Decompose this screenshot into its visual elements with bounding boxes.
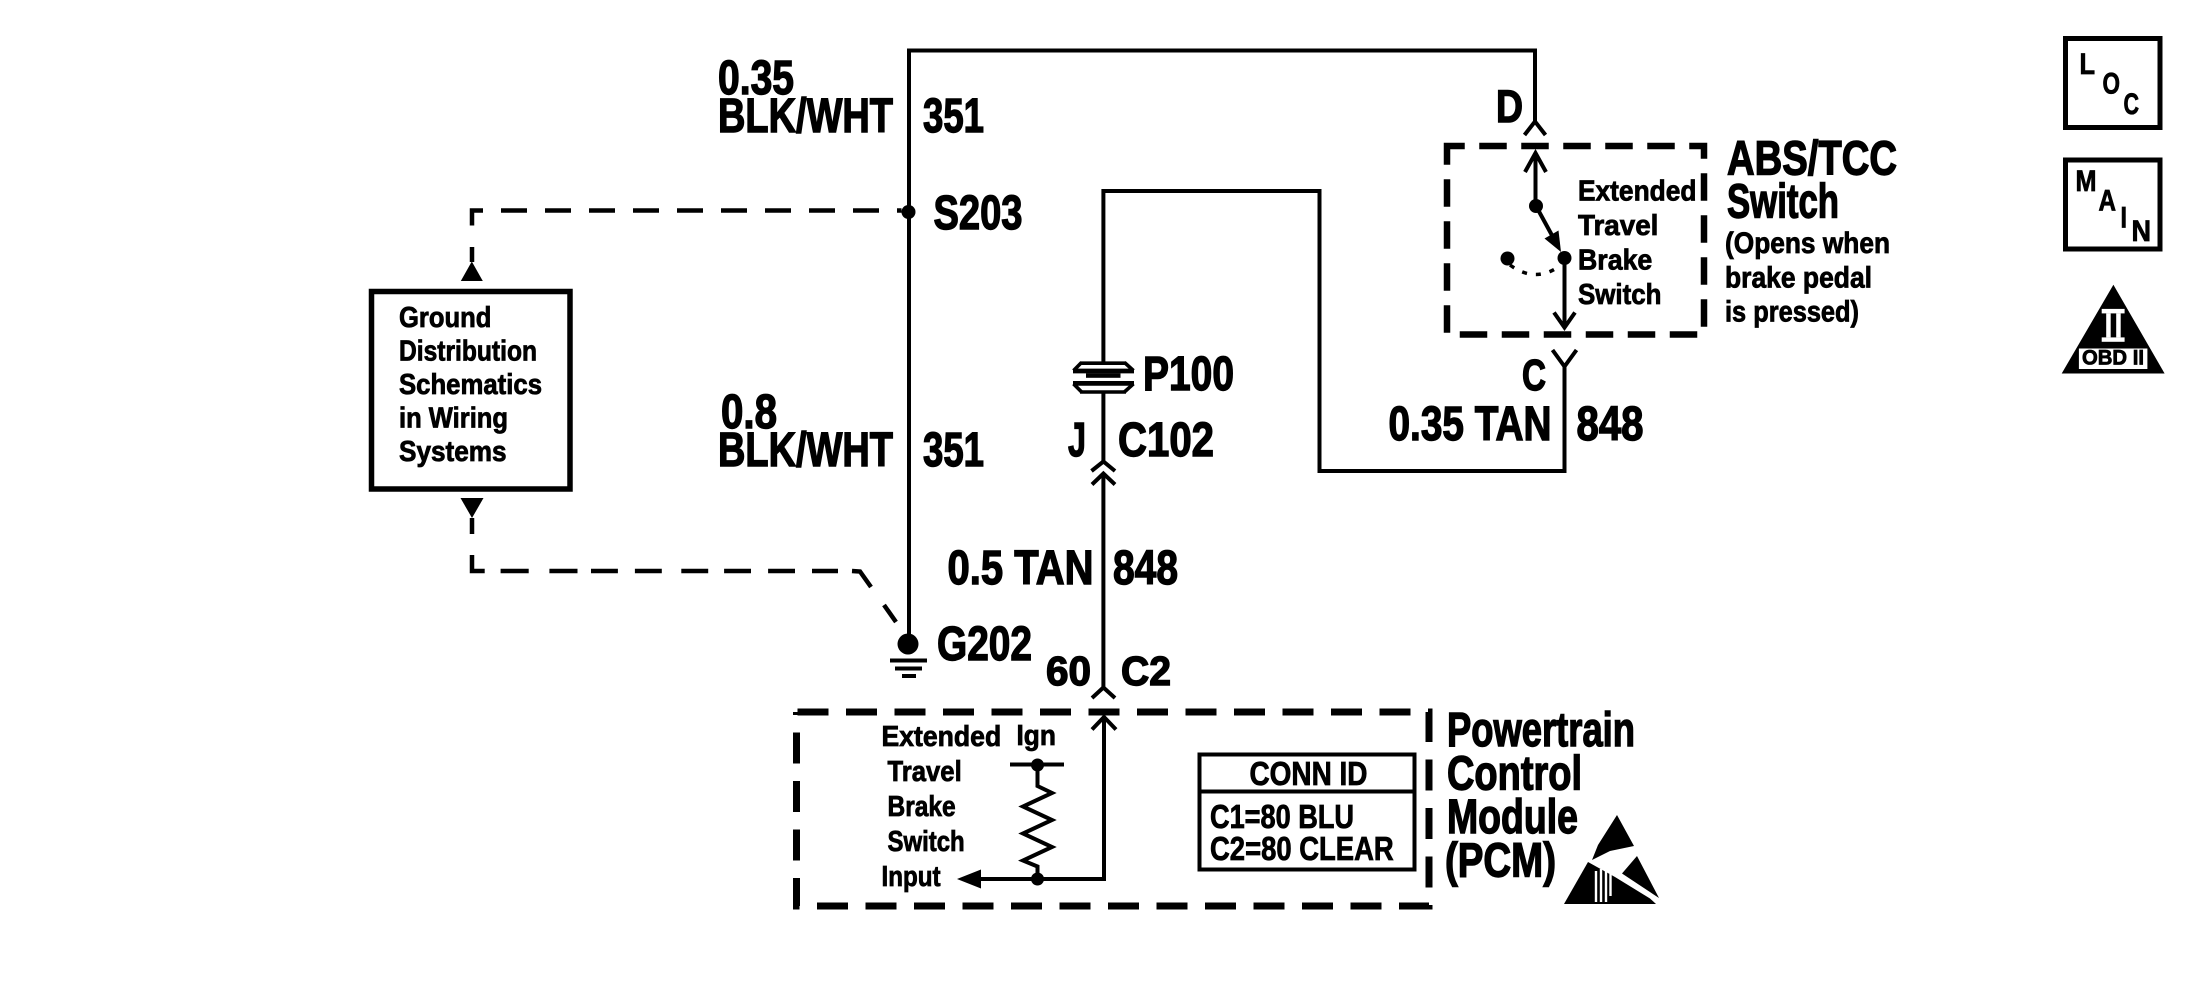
dashed reference line to G202 [472, 518, 896, 622]
svg-text:Ign: Ign [1017, 720, 1056, 752]
wire: 0.35 TAN 848 down from C [1563, 364, 1567, 471]
PCM pin 60 arrow into module [981, 717, 1116, 879]
svg-text:BLK/WHT: BLK/WHT [718, 424, 893, 477]
Ground Distribution Schematics box [372, 292, 571, 490]
connector C female chevron [1553, 350, 1577, 367]
svg-text:D: D [1496, 81, 1523, 132]
svg-text:in Wiring: in Wiring [399, 403, 508, 435]
svg-text:351: 351 [923, 424, 984, 477]
svg-text:M: M [2076, 165, 2097, 198]
wire: top horizontal 0.35 BLK/WHT 351 [909, 49, 1535, 53]
svg-text:Brake: Brake [1578, 245, 1652, 277]
ABS/TCC switch dashed box [1447, 146, 1704, 335]
switch travel dashed arc [1510, 265, 1561, 275]
input arrow (filled, points left) [957, 870, 981, 889]
PCM dashed box [797, 712, 1430, 906]
wire: down into grommet P100 [1101, 189, 1105, 362]
wire: horizontal over to P100 [1103, 189, 1321, 193]
svg-text:BLK/WHT: BLK/WHT [718, 90, 893, 143]
Ign tap wire [1010, 763, 1064, 767]
off-page arrow down (to G202) [461, 498, 484, 518]
svg-text:S203: S203 [934, 187, 1023, 240]
junction dot resistor bottom [1031, 873, 1044, 886]
svg-text:Input: Input [882, 861, 941, 893]
switch contact dot (C side) [1558, 251, 1572, 265]
svg-text:N: N [2132, 215, 2152, 248]
svg-text:Extended: Extended [882, 721, 1002, 753]
svg-text:848: 848 [1113, 542, 1178, 595]
svg-text:848: 848 [1577, 398, 1644, 451]
connector C102 female fork [1092, 462, 1116, 472]
OBD II roman numeral [2102, 309, 2125, 342]
junction dot Ign [1031, 759, 1044, 772]
switch arrow up to D [1525, 153, 1546, 206]
wire: 0.5 TAN 848 [1101, 475, 1105, 688]
connector D female chevron [1525, 122, 1546, 136]
LOC reference box [2066, 39, 2161, 128]
svg-text:C2=80 CLEAR: C2=80 CLEAR [1210, 830, 1394, 867]
svg-text:C: C [1522, 351, 1546, 400]
svg-text:I: I [2121, 202, 2128, 235]
connector C2 female chevron [1092, 688, 1115, 699]
svg-text:O: O [2103, 68, 2121, 101]
connector C102 male arrow [1092, 474, 1115, 485]
svg-text:C102: C102 [1118, 414, 1214, 467]
switch pivot dot (D side) [1529, 199, 1543, 213]
ground symbol bars [890, 661, 927, 677]
svg-text:J: J [1068, 414, 1086, 467]
svg-text:0.5 TAN: 0.5 TAN [948, 542, 1094, 595]
CONN ID table frame [1200, 755, 1415, 870]
svg-text:(Opens when: (Opens when [1725, 227, 1890, 260]
svg-text:L: L [2080, 48, 2096, 81]
svg-text:Travel: Travel [888, 756, 962, 788]
svg-text:is pressed): is pressed) [1725, 296, 1859, 329]
off-page arrow up (to S203) [461, 262, 483, 282]
svg-text:Brake: Brake [888, 791, 956, 823]
wire: right vertical drop to terminal D [1533, 49, 1537, 122]
MAIN reference box [2066, 160, 2161, 249]
svg-text:OBD II: OBD II [2082, 347, 2144, 370]
switch lead down with arrowhead to box edge [1554, 258, 1575, 328]
switch arm with arrowhead [1536, 206, 1554, 239]
svg-text:60: 60 [1046, 648, 1091, 694]
svg-text:351: 351 [923, 90, 984, 143]
grommet P100 [1073, 363, 1134, 393]
svg-text:A: A [2099, 185, 2117, 218]
svg-text:Distribution: Distribution [399, 336, 537, 368]
svg-text:Schematics: Schematics [399, 369, 542, 401]
svg-text:0.35 TAN: 0.35 TAN [1389, 398, 1552, 451]
svg-text:Switch: Switch [1578, 279, 1662, 311]
svg-text:Ground: Ground [399, 302, 491, 334]
svg-text:Extended: Extended [1578, 176, 1696, 208]
splice S203 dot [902, 205, 916, 219]
svg-text:Switch: Switch [888, 826, 965, 858]
CONN ID header divider [1200, 790, 1415, 794]
svg-text:C: C [2124, 88, 2140, 121]
svg-text:P100: P100 [1143, 348, 1234, 401]
svg-text:Travel: Travel [1578, 210, 1658, 242]
switch open contact dot [1501, 252, 1515, 266]
wire: horizontal TAN 848 [1320, 469, 1567, 473]
dashed reference line S203 to ground distribution [472, 211, 902, 263]
svg-text:CONN ID: CONN ID [1250, 755, 1368, 792]
ground G202 dot [898, 634, 919, 655]
ESD sensitive symbol [1564, 815, 1659, 904]
svg-text:brake pedal: brake pedal [1725, 262, 1872, 295]
svg-text:G202: G202 [937, 618, 1032, 671]
wire: P100 to C102 [1101, 392, 1105, 461]
svg-text:(PCM): (PCM) [1445, 835, 1556, 888]
wire: vertical up to P100 branch [1318, 191, 1322, 473]
OBD II triangle [2062, 285, 2165, 374]
svg-text:Systems: Systems [399, 436, 507, 468]
wire: left vertical BLK/WHT 351 from top to G202 [907, 49, 911, 645]
resistor (pull-up to Ign) [1023, 765, 1052, 879]
svg-text:Switch: Switch [1727, 176, 1839, 229]
OBD II label plate [2079, 349, 2148, 370]
svg-text:C2: C2 [1121, 648, 1171, 694]
